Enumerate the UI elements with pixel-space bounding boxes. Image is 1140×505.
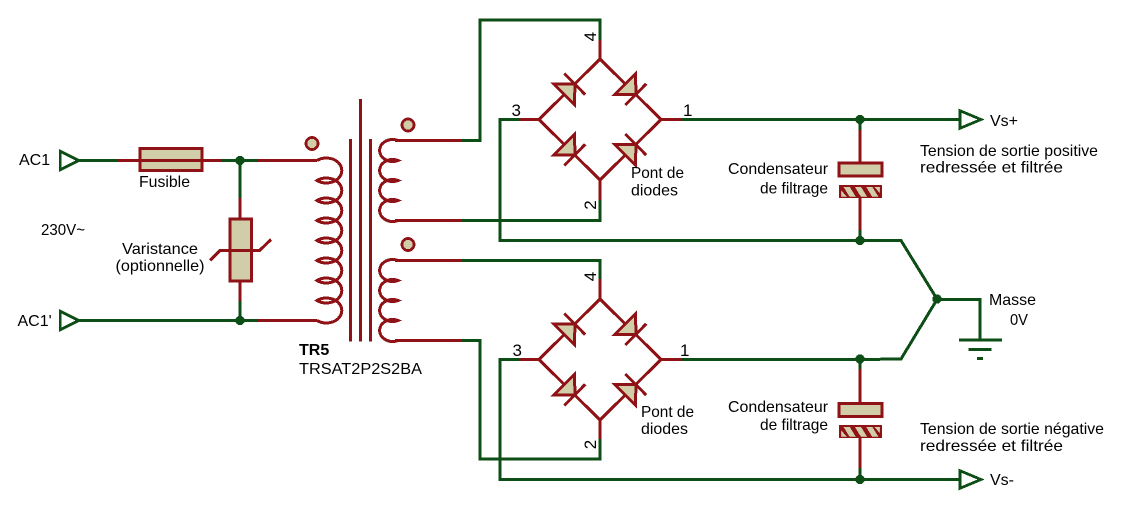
fuse lead right (pin) [202, 159, 221, 162]
capacitor C1 plate - (hatched) [839, 185, 890, 198]
transformer TR5 secondary 2 polarity dot [402, 239, 414, 251]
wire fuse to node A [221, 159, 259, 162]
svg-text:Pont de: Pont de [641, 404, 694, 421]
wire sec2 bottom to bridge2 pin2 [461, 341, 600, 460]
capacitor C2 plate - (hatched) [839, 425, 890, 438]
fuse F1 (Fusible) body [140, 149, 202, 171]
svg-text:Masse: Masse [989, 292, 1036, 309]
svg-text:2: 2 [581, 200, 600, 209]
bridge rectifier 1 frame [539, 59, 661, 180]
wire bridge1 pin3 to negative rail [500, 120, 860, 241]
bridge2 pin 2 stub [599, 419, 602, 440]
terminal AC1 [60, 151, 78, 170]
junction ground node [932, 294, 941, 303]
varistor bottom pin [239, 281, 242, 301]
svg-text:1: 1 [683, 101, 692, 120]
transformer TR5 secondary 2 winding [380, 260, 398, 342]
junction Vs- rail [855, 475, 864, 484]
bridge1 pin 1 stub [661, 118, 681, 121]
wire negative rail to ground node [860, 241, 937, 300]
svg-text:Tension de sortie négative: Tension de sortie négative [920, 421, 1104, 438]
transformer TR5 secondary 1 polarity dot [402, 119, 414, 131]
wire sec1 top to bridge1 pin4 [461, 20, 600, 141]
svg-text:AC1': AC1' [18, 313, 52, 330]
svg-text:4: 4 [581, 272, 600, 281]
transformer TR5 secondary 2 top pin [395, 259, 461, 262]
bridge1 pin 2 stub [599, 179, 602, 201]
varistor top pin [239, 198, 242, 220]
svg-text:diodes: diodes [641, 421, 688, 438]
wire bridge2 pin3 to Vs- rail [500, 360, 860, 480]
bridge rectifier 2 frame [539, 299, 661, 420]
junction C2 top [855, 354, 864, 363]
transformer TR5 primary top pin [258, 159, 317, 162]
ground symbol [959, 339, 1002, 342]
bridge1 diode D4 (2 to 1) [615, 145, 636, 166]
svg-text:redressée et filtrée: redressée et filtrée [920, 160, 1063, 177]
svg-text:2: 2 [581, 440, 600, 449]
svg-text:Varistance: Varistance [122, 241, 198, 258]
bridge1 diode D3 (3 to 2) [554, 134, 575, 155]
svg-text:0V: 0V [1010, 312, 1028, 329]
fuse element line [140, 159, 202, 162]
terminal Vs- [960, 471, 981, 489]
bridge2 diode D3 (3 to 2) [554, 374, 575, 395]
capacitor C2 bottom lead [859, 438, 862, 468]
wire ground node to ground symbol [937, 300, 980, 341]
varistor symbol stroke [210, 240, 271, 261]
svg-text:diodes: diodes [631, 183, 678, 200]
svg-text:Pont de: Pont de [631, 165, 684, 182]
bridge2 diode D2 (4 to 1) [615, 314, 636, 335]
bridge2 pin 3 stub [519, 358, 539, 361]
transformer TR5 primary polarity dot [306, 138, 318, 150]
wire bridge2 pin1 to junction [681, 358, 860, 361]
capacitor C1 top lead [859, 120, 862, 131]
bridge1 diode D2 (4 to 1) [615, 74, 636, 95]
bridge1 pin 3 stub [519, 118, 539, 121]
svg-text:3: 3 [512, 101, 521, 120]
svg-text:Fusible: Fusible [139, 174, 190, 191]
svg-text:1: 1 [680, 341, 689, 360]
svg-text:AC1: AC1 [19, 152, 50, 169]
bridge1 diode D1 (3 to 4) [554, 84, 575, 105]
svg-text:4: 4 [581, 32, 600, 41]
junction node B [235, 316, 244, 325]
transformer TR5 secondary 2 bottom pin [395, 339, 461, 342]
transformer TR5 secondary 1 bottom pin [395, 219, 461, 222]
svg-text:de filtrage: de filtrage [760, 181, 828, 198]
fuse lead left (pin) [118, 159, 140, 162]
wire node A to varistor [239, 159, 242, 198]
wire AC1 to fuse [79, 159, 118, 162]
transformer TR5 core [349, 139, 352, 342]
svg-text:Vs-: Vs- [990, 472, 1014, 489]
varistor RV1 body [230, 219, 252, 281]
svg-text:230V~: 230V~ [41, 222, 85, 239]
svg-text:Tension de sortie positive: Tension de sortie positive [920, 143, 1098, 160]
capacitor C2 (Condensateur de filtrage) plate + [839, 404, 882, 417]
transformer TR5 secondary 1 winding [380, 140, 398, 222]
svg-text:TRSAT2P2S2BA: TRSAT2P2S2BA [299, 361, 422, 378]
transformer TR5 primary winding [317, 158, 342, 323]
junction C1 bottom [855, 236, 864, 245]
wire junction to Vs- terminal [860, 478, 961, 481]
svg-text:(optionnelle): (optionnelle) [116, 258, 205, 275]
wire AC1' to node B [79, 319, 258, 322]
transformer TR5 secondary 1 top pin [395, 139, 461, 142]
svg-text:redressée et filtrée: redressée et filtrée [920, 438, 1063, 455]
wire sec2 top to bridge2 pin4 [461, 261, 600, 280]
bridge2 pin 1 stub [661, 358, 681, 361]
bridge2 pin 4 stub [599, 279, 602, 300]
wire bridge1 pin1 to Vs+ [681, 118, 961, 121]
svg-text:Vs+: Vs+ [990, 113, 1018, 130]
terminal Vs+ [960, 111, 981, 129]
junction node A [235, 156, 244, 165]
transformer TR5 primary bottom pin [258, 319, 317, 322]
svg-text:de filtrage: de filtrage [760, 417, 828, 434]
wire varistor to node B [239, 301, 242, 322]
terminal AC1' [60, 311, 78, 330]
capacitor C1 (Condensateur de filtrage) plate + [839, 163, 882, 176]
svg-text:Condensateur: Condensateur [728, 399, 829, 416]
capacitor C1 bottom lead [859, 198, 862, 230]
wire sec1 bottom to bridge1 pin2 [461, 200, 600, 221]
svg-text:Condensateur: Condensateur [728, 161, 829, 178]
capacitor C2 top lead [859, 359, 862, 369]
bridge1 pin 4 stub [599, 40, 602, 61]
bridge2 diode D4 (2 to 1) [615, 385, 636, 406]
svg-text:3: 3 [513, 341, 522, 360]
wire positive rail (bottom) to ground node [860, 300, 937, 360]
bridge2 diode D1 (3 to 4) [554, 324, 575, 345]
junction C1 top [855, 115, 864, 124]
svg-text:TR5: TR5 [299, 342, 329, 359]
